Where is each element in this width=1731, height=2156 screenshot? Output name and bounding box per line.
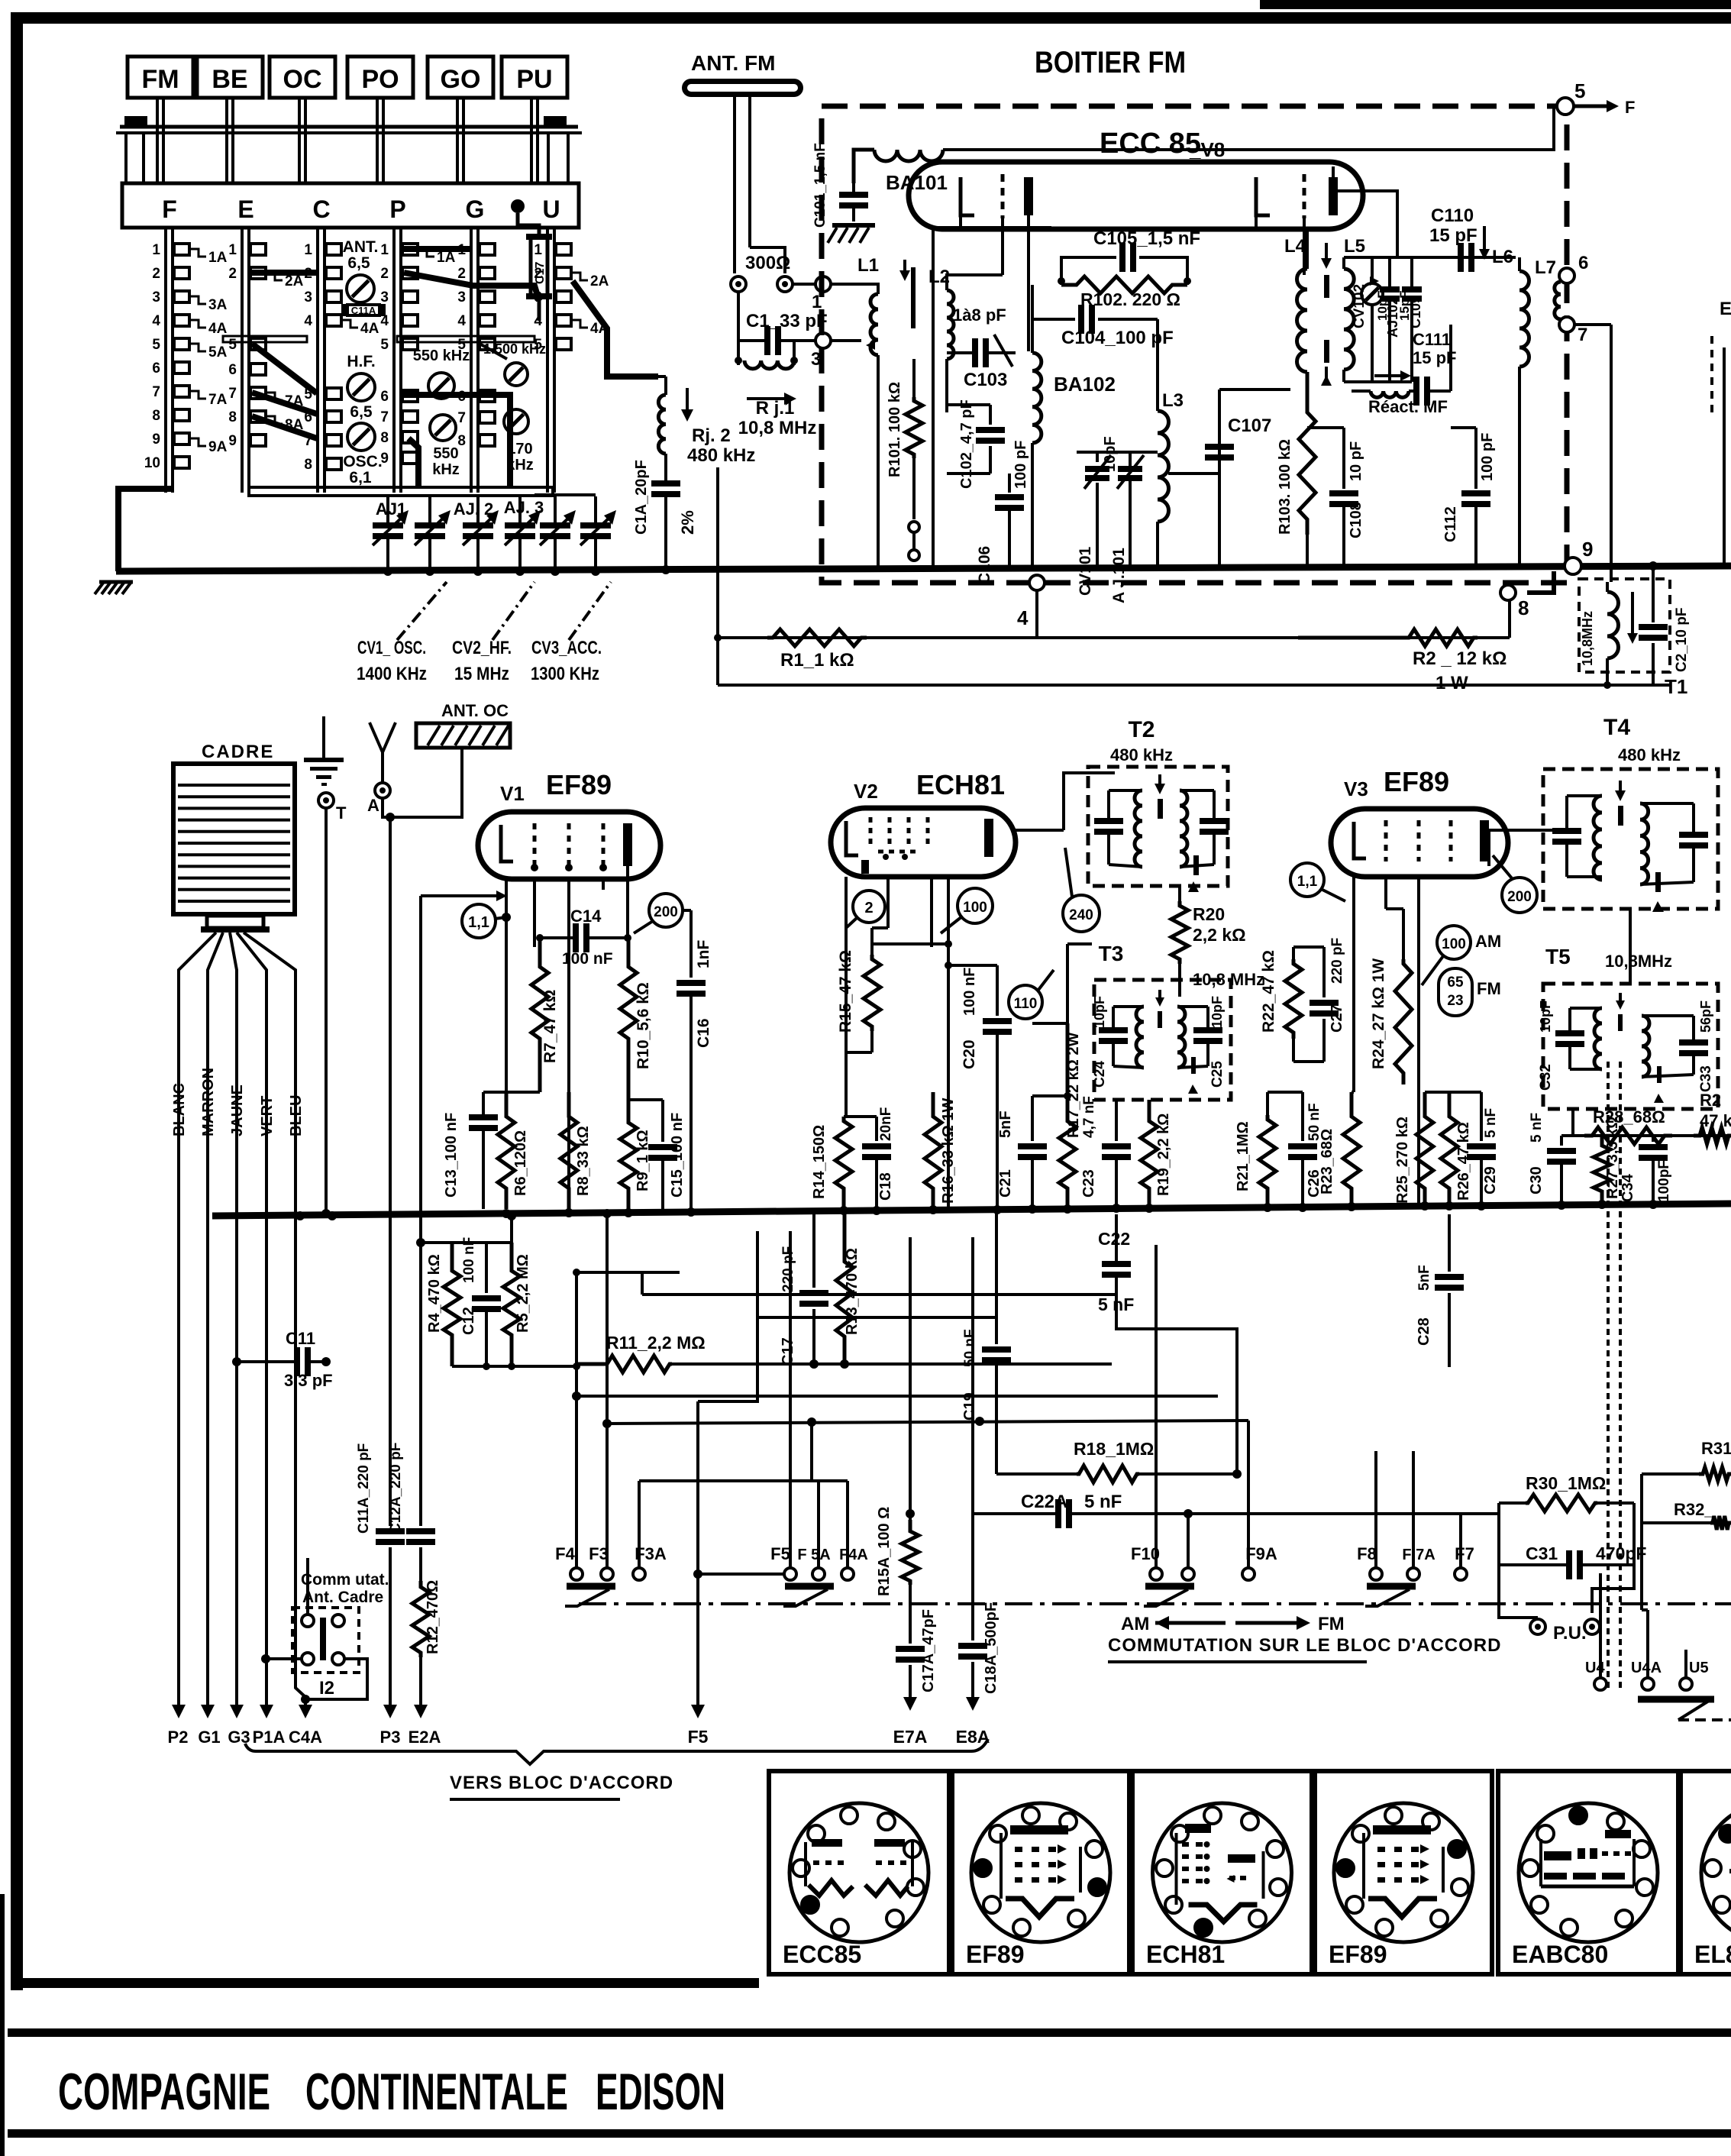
svg-text:1 W: 1 W — [1436, 673, 1468, 693]
resistor R15A 100 — [909, 1237, 912, 1520]
svg-text:ECC 85: ECC 85 — [1100, 128, 1201, 160]
svg-text:C: C — [312, 196, 330, 223]
svg-text:U4A: U4A — [1631, 1660, 1662, 1676]
wire F9A — [1247, 1421, 1250, 1567]
svg-text:F4A: F4A — [839, 1547, 868, 1563]
svg-text:CV2_HF.: CV2_HF. — [452, 638, 512, 658]
svg-text:R22_47 kΩ: R22_47 kΩ — [1260, 950, 1277, 1033]
V2 k wire — [886, 877, 890, 928]
svg-text:10,8 MHz: 10,8 MHz — [738, 418, 817, 438]
capacitor C18A 500pF — [971, 1237, 974, 1640]
svg-text:2: 2 — [864, 900, 873, 916]
wire row y897 — [718, 684, 1670, 687]
svg-text:R17_22 kΩ 2W: R17_22 kΩ 2W — [1065, 1033, 1082, 1138]
svg-text:ECH81: ECH81 — [916, 769, 1005, 800]
ground hatch C101 — [832, 223, 875, 228]
switch wafer bar mid — [223, 336, 307, 342]
svg-text:10pF: 10pF — [1375, 290, 1390, 321]
svg-text:FM: FM — [1318, 1614, 1345, 1634]
svg-text:7: 7 — [152, 384, 160, 400]
V1 grids — [533, 823, 537, 865]
title rule lower — [8, 2129, 1731, 2138]
svg-text:ANT. OC: ANT. OC — [441, 701, 509, 720]
svg-text:4: 4 — [534, 313, 542, 329]
svg-text:C4A: C4A — [289, 1728, 322, 1747]
svg-text:EF89: EF89 — [546, 769, 612, 800]
antenna A symbol — [370, 722, 396, 752]
svg-text:COMMUTATION SUR LE BLOC D': COMMUTATION SUR LE BLOC D'ACCORD — [1108, 1635, 1501, 1656]
svg-text:8: 8 — [152, 408, 160, 424]
wire T4 down — [1629, 909, 1632, 984]
svg-text:9: 9 — [1582, 538, 1593, 561]
ground symbol T — [322, 716, 325, 758]
wire R30 loop — [1497, 1503, 1500, 1565]
switch column G — [470, 228, 473, 493]
wire R1 row — [718, 636, 1510, 639]
arrow C110 — [1483, 226, 1486, 254]
trimmer CV101 — [1096, 452, 1099, 462]
svg-text:F8: F8 — [1357, 1544, 1377, 1563]
terminal ant right — [777, 276, 793, 292]
svg-text:100 pF: 100 pF — [1479, 433, 1496, 481]
svg-text:R26_47 kΩ: R26_47 kΩ — [1455, 1122, 1472, 1201]
wires CV102 cluster — [1344, 256, 1516, 259]
svg-text:2%: 2% — [678, 510, 697, 535]
V3 cathode — [1354, 822, 1366, 858]
svg-text:EF89: EF89 — [966, 1941, 1024, 1968]
tube socket box ECH81 — [1132, 1771, 1312, 1974]
svg-text:F5: F5 — [770, 1544, 790, 1563]
svg-text:R12_470Ω: R12_470Ω — [425, 1580, 441, 1654]
capacitor C20 100nF — [996, 965, 999, 1016]
wire U4 — [1599, 1573, 1602, 1677]
V2 g wires — [930, 877, 933, 947]
svg-text:F 7A: F 7A — [1402, 1547, 1435, 1563]
core bars L4L5 — [1324, 275, 1329, 298]
capacitor C12 100nF — [485, 1243, 488, 1293]
svg-text:550 kHz: 550 kHz — [413, 347, 470, 364]
resistor R5 2,2M — [503, 1243, 520, 1366]
svg-text:R11_2,2 MΩ: R11_2,2 MΩ — [606, 1333, 706, 1353]
capacitor C2 10pF — [1652, 566, 1655, 622]
svg-text:_V8: _V8 — [1189, 138, 1225, 161]
svg-text:8: 8 — [228, 409, 237, 425]
wire stem OC — [298, 98, 301, 183]
svg-text:U4: U4 — [1585, 1660, 1605, 1676]
resistor R103 100k — [1299, 372, 1316, 535]
capacitor C17A 47pF — [909, 1585, 912, 1644]
svg-text:4A: 4A — [208, 321, 228, 337]
svg-text:BE: BE — [212, 65, 247, 94]
wire F8 — [1374, 1451, 1377, 1567]
svg-text:R4_470 kΩ: R4_470 kΩ — [426, 1254, 443, 1333]
wire G5 to 1500kHz — [480, 344, 507, 359]
svg-text:5: 5 — [1574, 79, 1585, 102]
svg-text:C11A: C11A — [351, 305, 376, 316]
circle 240 — [1063, 895, 1100, 932]
svg-text:E: E — [1720, 299, 1731, 319]
T2 left cap — [1094, 821, 1123, 832]
terminal ant left — [731, 276, 746, 292]
wire I2 out — [305, 1659, 367, 1699]
dashed box T2 — [1088, 767, 1228, 886]
svg-text:F3A: F3A — [635, 1544, 667, 1563]
svg-text:R1_1 kΩ: R1_1 kΩ — [780, 650, 854, 671]
svg-text:50 nF: 50 nF — [962, 1329, 978, 1367]
wire r17 top — [1066, 944, 1069, 1023]
svg-text:8: 8 — [380, 430, 389, 446]
capacitor C15 100nF — [661, 1100, 664, 1142]
wire F5 plate — [698, 1231, 757, 1401]
svg-text:5 nF: 5 nF — [1084, 1492, 1122, 1512]
capacitor C27 220pF — [1322, 947, 1326, 997]
V1 pin dots — [531, 864, 538, 871]
circle 110 — [1009, 985, 1042, 1019]
svg-text:R24_27 kΩ 1W: R24_27 kΩ 1W — [1370, 958, 1387, 1069]
capacitor C108 10pF — [1342, 428, 1345, 489]
svg-text:F9A: F9A — [1245, 1544, 1277, 1563]
jumper P2 to U bend — [404, 273, 539, 301]
wire stem FM — [156, 98, 159, 183]
V1 cathode — [501, 825, 513, 861]
svg-text:C34: C34 — [1620, 1173, 1636, 1202]
wire stem PO — [376, 98, 379, 183]
svg-text:C32: C32 — [1538, 1064, 1554, 1091]
V2 lower electrodes — [878, 850, 920, 854]
switch bar F5F5A — [785, 1583, 834, 1590]
svg-text:56pF: 56pF — [1698, 1000, 1713, 1033]
bus junction dots AJ — [383, 567, 392, 576]
svg-text:R7_47 kΩ: R7_47 kΩ — [541, 990, 559, 1063]
oval 65 23 FM — [1439, 968, 1472, 1016]
antenna ANT FM T-bar — [691, 79, 794, 97]
svg-text:R8_33 kΩ: R8_33 kΩ — [575, 1126, 592, 1196]
svg-text:C25: C25 — [1209, 1061, 1226, 1088]
svg-text:100: 100 — [963, 900, 987, 916]
resistor R14 150 — [835, 1117, 852, 1209]
switch bar F8F7A — [1367, 1583, 1416, 1590]
svg-text:C18A_500pF: C18A_500pF — [983, 1602, 1000, 1694]
svg-text:C24: C24 — [1092, 1061, 1108, 1088]
svg-text:OSC.: OSC. — [343, 453, 382, 470]
svg-text:P1A: P1A — [253, 1728, 286, 1747]
node on plate — [511, 199, 525, 213]
V3 grids — [1384, 820, 1388, 861]
dash-dot pointer CV1 — [397, 582, 447, 640]
I2 contacts — [302, 1615, 314, 1627]
svg-text:C33: C33 — [1698, 1065, 1714, 1092]
svg-text:C111: C111 — [1413, 330, 1451, 349]
svg-text:C16: C16 — [695, 1018, 712, 1048]
svg-text:E: E — [237, 196, 254, 223]
svg-text:110: 110 — [1014, 996, 1038, 1012]
svg-text:C17A_47pF: C17A_47pF — [920, 1609, 937, 1692]
switch bottom bar — [249, 487, 553, 496]
bus junction dots — [502, 1209, 511, 1218]
wire CV101 top rail — [1077, 451, 1158, 454]
dashed box T3 — [1094, 980, 1231, 1100]
jumper P1-G1 — [404, 246, 470, 252]
T5 core2 — [1657, 1066, 1662, 1083]
capacitor C101 1,5nF — [839, 195, 868, 205]
circle 100 AM — [1437, 926, 1471, 959]
svg-text:C14: C14 — [570, 907, 602, 926]
svg-text:ANT. FM: ANT. FM — [691, 51, 775, 75]
svg-text:L3: L3 — [1162, 390, 1184, 411]
svg-text:Rj. 2: Rj. 2 — [692, 425, 731, 446]
capacitor C19 50nF — [995, 1209, 998, 1344]
svg-text:T2: T2 — [1128, 717, 1155, 742]
resistor R24 27k 1W — [1402, 909, 1405, 959]
svg-text:BA102: BA102 — [1054, 373, 1116, 396]
svg-text:JAUNE: JAUNE — [229, 1084, 246, 1136]
ECC85 triode1 grid — [1001, 174, 1005, 218]
wire V3 plate to T4 — [1488, 830, 1490, 861]
svg-text:L7: L7 — [1535, 257, 1556, 278]
svg-text:2: 2 — [228, 266, 237, 282]
svg-text:10pF: 10pF — [1209, 996, 1225, 1028]
capacitor C18 20nF — [875, 1117, 878, 1141]
border frame left bar — [11, 12, 23, 1990]
wire F3A — [638, 1481, 641, 1567]
svg-text:1: 1 — [228, 242, 237, 258]
capacitor C17 vertical boxed — [531, 237, 547, 296]
resistor R2 12k — [1298, 629, 1477, 646]
svg-text:3: 3 — [380, 289, 389, 305]
svg-text:C15_100 nF: C15_100 nF — [669, 1113, 686, 1198]
resistor R25 270k — [1416, 1092, 1433, 1209]
resistor R4 470k — [444, 1243, 460, 1366]
wire C104 to L3 — [1156, 319, 1159, 411]
svg-text:F4: F4 — [555, 1544, 575, 1563]
svg-text:CONTINENTALE: CONTINENTALE — [305, 2063, 568, 2121]
ground bus AM main — [212, 1204, 1731, 1216]
svg-text:4,7 nF: 4,7 nF — [1081, 1096, 1097, 1138]
wire F4 branch — [575, 1272, 578, 1366]
wire coupling y1695 — [641, 1272, 644, 1295]
svg-text:P: P — [389, 196, 405, 223]
svg-text:15pF: 15pF — [1397, 290, 1412, 321]
dashed box T1 — [1579, 579, 1670, 672]
tube socket box EF89 second — [1315, 1771, 1492, 1974]
cadre funnel — [207, 916, 263, 928]
dashed box T4 — [1543, 769, 1718, 909]
V1 g2 wire — [567, 879, 570, 1209]
svg-text:C12A_220 pF: C12A_220 pF — [388, 1443, 404, 1534]
brace vers bloc — [245, 1739, 988, 1764]
svg-text:C28: C28 — [1416, 1317, 1432, 1346]
svg-text:L4: L4 — [1284, 236, 1306, 257]
svg-text:CV101: CV101 — [1077, 546, 1094, 596]
svg-text:2: 2 — [534, 266, 542, 282]
dashed box T5 — [1543, 984, 1718, 1109]
resistor R13 470k — [836, 1209, 853, 1364]
jumper P8 down to AJ2 — [409, 438, 418, 489]
wire E2A feed — [421, 894, 501, 897]
variable capacitor pair AJ1 — [386, 496, 389, 525]
ECC85 triode2 grid — [1303, 174, 1306, 218]
wire F7A — [1412, 1451, 1415, 1567]
svg-text:E7A: E7A — [893, 1727, 928, 1747]
T5 right cap — [1679, 1042, 1708, 1053]
svg-text:P3: P3 — [380, 1728, 401, 1747]
T4 core — [1618, 806, 1623, 826]
wire F5A — [812, 1568, 825, 1580]
svg-text:BLANC: BLANC — [171, 1083, 188, 1136]
capacitor C107 — [1158, 473, 1219, 474]
svg-text:R15_47 kΩ: R15_47 kΩ — [837, 950, 854, 1033]
T4 left cap — [1552, 831, 1581, 842]
svg-text:10pF: 10pF — [1102, 436, 1119, 472]
svg-text:7A: 7A — [208, 392, 228, 408]
svg-text:FM: FM — [1477, 979, 1501, 998]
wire ANT OC down — [390, 748, 462, 817]
svg-text:7: 7 — [228, 386, 237, 402]
V1 cathode wire — [505, 879, 508, 1092]
svg-text:EL84: EL84 — [1694, 1941, 1731, 1968]
V1 plate wire — [626, 866, 629, 938]
svg-text:2,2 kΩ: 2,2 kΩ — [1193, 925, 1246, 945]
svg-text:F 5A: F 5A — [797, 1547, 830, 1563]
wire F5b — [784, 1568, 796, 1580]
svg-text:OC: OC — [283, 65, 322, 94]
resistor R10 5,6k — [620, 938, 637, 1100]
resistor R101 100k — [912, 359, 916, 397]
dashed box I2 — [292, 1608, 359, 1673]
svg-text:G: G — [466, 196, 485, 223]
ECC85 triode1 plate — [1024, 177, 1033, 215]
wire F10 — [1155, 1245, 1158, 1567]
capacitor C102 47pF — [989, 405, 992, 425]
svg-text:C1_33 pF: C1_33 pF — [746, 311, 828, 331]
wire F10 to ground — [118, 489, 173, 571]
svg-text:65: 65 — [1447, 975, 1464, 991]
svg-text:L2: L2 — [928, 267, 950, 287]
capacitor C13 100nF — [469, 1117, 498, 1128]
node 1 — [793, 283, 816, 286]
svg-text:1: 1 — [304, 242, 312, 258]
svg-text:L5: L5 — [1344, 236, 1365, 257]
wire R4 cluster top — [421, 1241, 512, 1244]
wire stem GO — [456, 98, 459, 183]
jumper P6-G6 — [404, 395, 510, 489]
capacitor C30 5nF — [1560, 1136, 1563, 1146]
svg-text:CV3_ACC.: CV3_ACC. — [531, 638, 602, 658]
jumper E8-C7 — [252, 416, 317, 438]
ECC85 plate2 wire — [1332, 215, 1334, 229]
svg-text:C108: C108 — [1348, 502, 1364, 538]
trimmer AJ101 — [1129, 472, 1132, 475]
switch bar F4F3 — [567, 1583, 615, 1590]
svg-text:C107: C107 — [1228, 415, 1271, 436]
svg-text:300Ω: 300Ω — [745, 253, 790, 273]
svg-text:100 nF: 100 nF — [562, 950, 613, 968]
T2 right coil — [1180, 790, 1187, 867]
node 7 — [1559, 317, 1574, 332]
T4 right cap — [1679, 835, 1708, 845]
svg-text:C13_100 nF: C13_100 nF — [443, 1113, 460, 1198]
terminal A — [375, 783, 390, 798]
svg-text:5nF: 5nF — [997, 1110, 1014, 1138]
svg-text:3A: 3A — [208, 297, 228, 313]
wire to PU — [1499, 1565, 1538, 1618]
svg-text:F5: F5 — [688, 1727, 709, 1747]
coil Rj1 — [744, 360, 794, 369]
trimmer C103 — [946, 353, 948, 372]
V2 plate — [984, 819, 993, 857]
wire F7 — [1459, 1514, 1462, 1567]
svg-text:R18_1MΩ: R18_1MΩ — [1074, 1439, 1154, 1459]
wire y1864 — [607, 1421, 1248, 1424]
svg-text:R16_33 kΩ 1W: R16_33 kΩ 1W — [940, 1098, 957, 1204]
svg-text:R32_: R32_ — [1674, 1500, 1714, 1519]
switch column U — [546, 228, 549, 493]
svg-text:4: 4 — [1017, 606, 1029, 629]
svg-text:Comm utat.: Comm utat. — [301, 1571, 389, 1589]
band button box PO — [347, 57, 413, 98]
wire y1487 HT — [1561, 1134, 1731, 1137]
svg-text:BOITIER FM: BOITIER FM — [1035, 46, 1186, 79]
terminal PU right — [1584, 1619, 1600, 1634]
V2 cathode — [846, 821, 858, 855]
V3 plate — [1480, 820, 1489, 861]
resistor R23 68 — [1343, 1092, 1360, 1209]
svg-text:PO: PO — [361, 65, 399, 94]
svg-text:10,8MHz: 10,8MHz — [1580, 611, 1595, 666]
wire antenna to terminals — [750, 247, 785, 273]
svg-text:CV102: CV102 — [1352, 284, 1368, 328]
wire BA102 top to tube — [1031, 285, 1034, 353]
svg-text:EF89: EF89 — [1384, 766, 1449, 797]
svg-text:10pF: 10pF — [1092, 996, 1107, 1028]
svg-text:200: 200 — [1507, 889, 1532, 905]
V2 grid wire down — [845, 877, 848, 1117]
wire T2 to T3 — [1178, 964, 1181, 997]
T5 core — [1618, 1014, 1623, 1031]
T2 right cap — [1200, 821, 1229, 832]
svg-text:F7: F7 — [1455, 1544, 1474, 1563]
svg-text:47 k: 47 k — [1700, 1111, 1731, 1130]
svg-text:8: 8 — [304, 457, 312, 473]
border frame bottom bar — [11, 1978, 759, 1988]
tube socket box ECC85 — [769, 1771, 949, 1974]
svg-text:6: 6 — [152, 360, 160, 377]
svg-text:10: 10 — [144, 455, 160, 471]
node 5 — [1557, 98, 1574, 115]
wire R15 top rail — [872, 942, 948, 945]
svg-text:CADRE: CADRE — [202, 742, 274, 762]
circle 200 V3 — [1502, 878, 1537, 913]
title rule upper — [8, 2028, 1731, 2037]
tube V3 EF89 — [1331, 809, 1508, 877]
wire right edge stub — [1723, 347, 1726, 563]
svg-text:100 pF: 100 pF — [1012, 441, 1029, 489]
svg-text:1,1: 1,1 — [468, 914, 489, 931]
T2 core — [1158, 799, 1163, 819]
svg-text:H.F.: H.F. — [347, 353, 375, 370]
svg-text:I2: I2 — [319, 1678, 334, 1699]
coil T1 — [1607, 592, 1619, 658]
terminal PU left — [1530, 1619, 1545, 1634]
band button box OC — [270, 57, 335, 98]
svg-text:R10_5,6 kΩ: R10_5,6 kΩ — [635, 982, 652, 1069]
svg-text:Réact. MF: Réact. MF — [1368, 397, 1448, 416]
svg-text:15 pF: 15 pF — [1429, 225, 1477, 246]
band button box GO — [428, 57, 493, 98]
svg-text:F: F — [1625, 98, 1635, 117]
border frame top bar — [11, 12, 1731, 24]
svg-text:kHz: kHz — [432, 461, 460, 478]
